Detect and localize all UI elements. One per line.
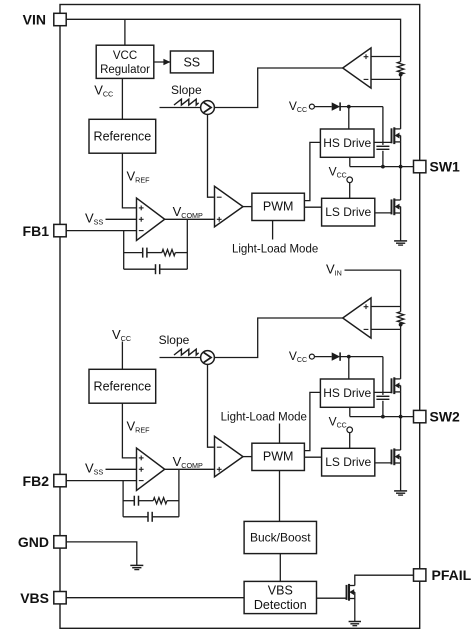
pin PFAIL	[414, 569, 426, 581]
pin label GND	[18, 534, 49, 550]
svg-text:Reference: Reference	[94, 380, 152, 394]
wire SW2 rail	[350, 416, 414, 418]
wire comp branch1 left ch2	[123, 500, 134, 502]
sense resistor R2	[397, 312, 404, 325]
wire bootstrap drop ch1	[382, 107, 384, 145]
summer S2	[201, 351, 215, 365]
net label VREF ch1	[127, 169, 151, 185]
pin FB2	[54, 474, 66, 486]
svg-text:LS Drive: LS Drive	[325, 205, 371, 219]
wire comp branch2 right ch1	[160, 268, 188, 270]
svg-text:Slope: Slope	[171, 83, 202, 97]
wire comp branch2 right ch2	[152, 516, 179, 518]
arrowhead to SS	[163, 59, 170, 65]
svg-text:HS Drive: HS Drive	[323, 386, 371, 400]
wire HS gate lead ch1	[374, 141, 392, 143]
svg-text:Buck/Boost: Buck/Boost	[250, 531, 311, 545]
pin FB1	[54, 224, 66, 236]
capacitor comp C1b	[156, 264, 160, 274]
wire CS1 - sense line	[371, 78, 401, 80]
svg-text:FB2: FB2	[23, 473, 50, 489]
svg-text:SS: SS	[183, 55, 200, 69]
transistor Q2H	[392, 377, 401, 394]
wire VCC to diode ch2	[314, 356, 331, 358]
pin label PFAIL	[432, 567, 472, 583]
wire GND pin to ground	[66, 542, 137, 566]
wire comp network right riser ch2	[178, 469, 180, 517]
wire PWM to HS Drive ch2	[304, 392, 320, 450]
wire VCC terminal to LS Drive ch1	[349, 183, 351, 199]
svg-text:PWM: PWM	[263, 200, 294, 214]
pin label SW2	[430, 409, 461, 425]
svg-text:VCC: VCC	[113, 50, 137, 62]
ground LS ch1	[394, 241, 407, 245]
pin VIN	[54, 13, 66, 25]
wire FB1 to error amp	[66, 230, 136, 232]
wire VIN rail	[66, 19, 400, 61]
ground LS ch2	[394, 491, 407, 495]
wire HS source to SW ch1	[400, 142, 402, 167]
wire PFAIL source to ground	[354, 599, 356, 622]
svg-text:Regulator: Regulator	[100, 64, 150, 76]
wire diode node to HS Drive ch2	[348, 357, 350, 379]
pin SW2	[414, 410, 426, 422]
wire PFAIL drain to pin	[355, 575, 414, 585]
error amp EA2	[137, 448, 165, 490]
wire HS source to SW ch2	[400, 392, 402, 417]
terminal VCC LS ch1	[347, 177, 353, 183]
wire PWM to Light-Load Mode ch1	[272, 221, 274, 240]
net label VSS ch2	[85, 460, 103, 476]
label Slope ch1	[171, 83, 202, 97]
summer S1	[201, 101, 215, 115]
wire comp branch1 right ch2	[167, 500, 179, 502]
svg-text:Slope: Slope	[159, 333, 190, 347]
wire PWM comparator output ch1	[243, 206, 252, 208]
svg-text:SW1: SW1	[430, 159, 461, 175]
wire PWM to HS Drive ch1	[304, 142, 320, 200]
wire HS drain column	[400, 325, 402, 379]
block Buck/Boost	[244, 521, 316, 553]
net label VSS ch1	[85, 210, 103, 226]
wire CS1 + sense line	[371, 56, 401, 58]
wire summer to PWM comparator minus ch1	[208, 114, 214, 197]
wire VIN stub to sense resistor ch2	[345, 270, 401, 312]
net label VIN ch2	[326, 262, 342, 278]
block VBS Detection	[244, 581, 316, 613]
diode D2	[332, 352, 340, 360]
pin label VIN	[23, 12, 46, 28]
wire VCC to diode ch1	[314, 106, 331, 108]
svg-text:SW2: SW2	[430, 409, 461, 425]
PWM comparator PC2	[215, 436, 244, 477]
wire HS drain column	[400, 75, 402, 129]
bootstrap capacitor CB2	[376, 396, 389, 399]
block PWM ch1	[252, 193, 305, 220]
pin label FB2	[23, 473, 50, 489]
terminal VCC LS ch2	[347, 427, 353, 433]
svg-text:PFAIL: PFAIL	[432, 567, 472, 583]
wire VCC Regulator to Reference	[121, 78, 123, 119]
wire comp branch1 right ch1	[175, 252, 187, 254]
wire HS Drive bottom to SW ch2	[349, 407, 351, 416]
wire Light-Load Mode to PWM ch2	[279, 424, 281, 444]
wire diode to bootstrap ch2	[340, 356, 383, 358]
junction sense resistor R1 bottom	[399, 73, 403, 77]
net label VCOMP ch1	[173, 204, 203, 220]
svg-text:Detection: Detection	[254, 598, 307, 612]
wire VIN rail to VCC Regulator	[124, 19, 126, 45]
wire Buck/Boost to VBS Detection	[279, 554, 281, 582]
wire slope input ch1	[160, 107, 201, 109]
svg-text:Reference: Reference	[94, 130, 152, 144]
wire comp branch1 left ch1	[124, 252, 143, 254]
block HS Drive ch1	[320, 129, 374, 157]
wire diode to bootstrap ch1	[340, 106, 383, 108]
wire VCC stub to Reference ch2	[121, 342, 123, 370]
wire comp branch2 left ch2	[123, 516, 148, 518]
wire SW to LS drain ch1	[400, 167, 402, 200]
wire PWM comparator output ch2	[243, 456, 252, 458]
wire CS2 + sense line	[371, 306, 401, 308]
svg-text:VBS: VBS	[20, 590, 49, 606]
wire PWM to LS Drive ch2	[304, 456, 321, 458]
net label VCC bootstrap ch2	[289, 349, 307, 364]
wire VBS pin to VBS Detection	[66, 597, 244, 599]
wire HS gate lead ch2	[374, 391, 392, 393]
block HS Drive ch2	[320, 379, 374, 407]
wire VBS Detection to PFAIL gate	[317, 597, 347, 599]
wire CS1 output to summer	[214, 68, 342, 108]
wire Reference to error amp ch2	[122, 403, 136, 458]
pin VBS	[54, 592, 66, 604]
wire VCC Regulator to SS	[154, 61, 171, 63]
wire VCC terminal to LS Drive ch2	[349, 433, 351, 449]
bootstrap capacitor CB1	[376, 146, 389, 149]
pin label FB1	[23, 223, 50, 239]
wire LS gate lead ch2	[375, 462, 392, 464]
junction bootstrap at SW ch1	[381, 165, 385, 169]
wire SW1 rail	[350, 166, 414, 168]
wire summer to PWM comparator minus ch2	[208, 364, 214, 447]
terminal VCC bootstrap ch1	[309, 104, 314, 109]
net label VCC ch2 top	[112, 327, 131, 343]
net label VCOMP ch2	[173, 454, 203, 470]
block LS Drive ch1	[322, 198, 375, 226]
comparator CS1	[343, 48, 371, 88]
pin label VBS	[20, 590, 49, 606]
pin GND	[54, 536, 66, 548]
label Slope ch2	[159, 333, 190, 347]
wire comp network left drop ch1	[123, 231, 125, 270]
wire SW to LS drain ch2	[400, 417, 402, 450]
svg-text:LS Drive: LS Drive	[325, 455, 371, 469]
wire LS source to ground ch2	[400, 463, 402, 491]
wire LS source to ground ch1	[400, 213, 402, 241]
junction bootstrap at SW ch2	[381, 415, 385, 419]
net label VCC LS ch2	[329, 414, 347, 429]
label Light-Load Mode ch2	[221, 411, 307, 423]
svg-text:VBS: VBS	[268, 583, 293, 597]
svg-text:Light-Load Mode: Light-Load Mode	[221, 411, 307, 423]
pin SW1	[414, 160, 426, 172]
junction diode node ch2	[347, 355, 351, 359]
block Reference ch2	[89, 369, 156, 403]
junction sense resistor R2 bottom	[399, 323, 403, 327]
junction diode node ch1	[347, 105, 351, 109]
label Light-Load Mode ch1	[232, 243, 318, 255]
transistor Q1L	[392, 198, 401, 215]
wire comp branch1 mid ch1	[147, 252, 162, 254]
svg-text:GND: GND	[18, 534, 49, 550]
wire PWM to LS Drive ch1	[304, 206, 321, 208]
net label VCC bootstrap ch1	[289, 99, 307, 114]
sense resistor R1	[397, 62, 404, 75]
svg-text:Light-Load Mode: Light-Load Mode	[232, 243, 318, 255]
wire bootstrap cap to SW ch2	[382, 401, 384, 417]
wire comp network right riser ch1	[186, 219, 188, 269]
wire VSS to error amp ch2	[106, 468, 137, 470]
transistor Q5 PFAIL	[347, 584, 355, 601]
wire HS Drive bottom to SW ch1	[349, 157, 351, 166]
block PWM ch2	[252, 443, 305, 470]
net label VREF ch2	[127, 419, 151, 435]
PWM comparator PC1	[215, 186, 244, 227]
wire FB2 to error amp	[66, 480, 136, 482]
comparator CS2	[343, 298, 371, 338]
transistor Q1H	[392, 127, 401, 144]
wire bootstrap cap to SW ch1	[382, 151, 384, 167]
wire CS2 output to summer	[214, 318, 342, 358]
capacitor comp C2b	[148, 512, 152, 522]
wire PWM2 to Buck/Boost	[279, 471, 281, 522]
resistor comp R1c	[162, 250, 175, 256]
net label VCC LS ch1	[329, 164, 347, 179]
wire bootstrap drop ch2	[382, 357, 384, 395]
transistor Q2L	[392, 448, 401, 465]
block LS Drive ch2	[322, 448, 375, 476]
svg-text:HS Drive: HS Drive	[323, 136, 371, 150]
wire CS2 - sense line	[371, 328, 401, 330]
wire LS gate lead ch1	[375, 212, 392, 214]
wire error amp output VCOMP ch1	[165, 218, 214, 220]
slope sawtooth symbol ch2	[174, 349, 199, 355]
wire comp branch2 left ch1	[124, 268, 156, 270]
pin label SW1	[430, 159, 461, 175]
ground PFAIL	[349, 622, 361, 626]
capacitor comp C1a	[143, 248, 147, 258]
resistor comp R2c	[153, 498, 167, 504]
block SS	[170, 51, 213, 73]
terminal VCC bootstrap ch2	[309, 354, 314, 359]
diode D1	[332, 102, 340, 110]
junction HS source at SW ch2	[399, 415, 403, 419]
wire slope input ch2	[160, 357, 201, 359]
svg-text:FB1: FB1	[23, 223, 50, 239]
wire comp branch1 mid ch2	[139, 500, 154, 502]
wire comp network left drop ch2	[122, 481, 124, 517]
error amp EA1	[137, 198, 165, 240]
wire Reference to error amp ch1	[122, 153, 136, 208]
block Reference ch1	[89, 119, 156, 153]
net label VCC ch1 top	[94, 83, 113, 99]
wire diode node to HS Drive ch1	[348, 107, 350, 129]
wire error amp output VCOMP ch2	[165, 468, 214, 470]
IC boundary box	[60, 5, 420, 629]
junction HS source at SW ch1	[399, 165, 403, 169]
capacitor comp C2a	[134, 496, 138, 506]
block VCC Regulator	[96, 45, 154, 78]
svg-text:VIN: VIN	[23, 12, 46, 28]
wire VSS to error amp ch1	[106, 218, 137, 220]
slope sawtooth symbol ch1	[174, 99, 199, 105]
ground GND pin	[130, 565, 143, 569]
svg-text:PWM: PWM	[263, 450, 294, 464]
